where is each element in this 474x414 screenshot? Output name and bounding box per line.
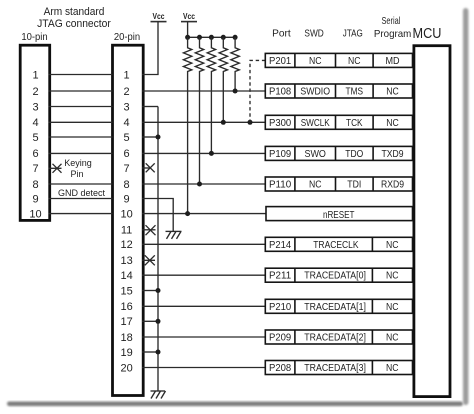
node: bus junction dots xyxy=(185,35,238,40)
svg-text:20: 20 xyxy=(120,362,132,374)
svg-text:3: 3 xyxy=(32,101,38,113)
svg-text:Program: Program xyxy=(374,28,412,40)
svg-text:NC: NC xyxy=(386,118,399,129)
svg-text:Port: Port xyxy=(272,28,291,40)
svg-text:NC: NC xyxy=(309,56,322,67)
svg-text:Arm standard: Arm standard xyxy=(44,6,105,18)
row P208 / TRACEDATA[3] / NC xyxy=(265,361,412,375)
node: pin 19 junction xyxy=(156,350,161,355)
svg-text:P300: P300 xyxy=(269,118,291,129)
svg-text:13: 13 xyxy=(120,255,132,267)
wire: pin 20 to P208 row xyxy=(142,367,265,369)
wire: pin 16 to P210 row xyxy=(142,305,265,307)
svg-text:10: 10 xyxy=(120,208,132,220)
svg-text:8: 8 xyxy=(32,179,38,191)
svg-text:Pin: Pin xyxy=(70,169,83,179)
svg-text:MCU: MCU xyxy=(413,25,442,42)
node: pin 5 junction xyxy=(156,135,161,140)
svg-text:SWO: SWO xyxy=(304,149,326,160)
svg-text:P201: P201 xyxy=(269,56,291,67)
resistor R2 (pull-up to pin 8 net) xyxy=(195,37,203,184)
svg-text:TRACEDATA[1]: TRACEDATA[1] xyxy=(304,302,366,313)
svg-text:7: 7 xyxy=(124,163,130,175)
svg-text:GND detect: GND detect xyxy=(58,188,106,198)
svg-text:NC: NC xyxy=(386,333,399,344)
svg-text:P209: P209 xyxy=(269,333,291,344)
svg-text:TRACEDATA[2]: TRACEDATA[2] xyxy=(304,333,366,344)
wire: pin 18 to P209 row xyxy=(142,336,265,338)
wire: pin 4 to P300 row xyxy=(142,121,265,123)
node: R4 junction xyxy=(221,120,226,125)
svg-text:TDI: TDI xyxy=(347,180,361,191)
svg-text:TXD9: TXD9 xyxy=(382,149,404,160)
row P110 / NC / TDI / RXD9 xyxy=(265,177,412,191)
svg-text:P109: P109 xyxy=(269,149,291,160)
svg-text:19: 19 xyxy=(120,347,132,359)
wire: Vcc feed to resistor bus xyxy=(187,22,189,38)
label: Keying Pin xyxy=(64,158,92,179)
svg-text:Keying: Keying xyxy=(64,158,92,168)
row P210 / TRACEDATA[1] / NC xyxy=(265,299,412,313)
svg-text:MD: MD xyxy=(385,56,399,67)
row P209 / TRACEDATA[2] / NC xyxy=(265,330,412,344)
no-connect X pin 11 xyxy=(142,225,156,235)
svg-text:TRACEDATA[3]: TRACEDATA[3] xyxy=(304,363,366,374)
wire: pin 9 to ground xyxy=(142,199,173,232)
resistor R1 (pull-up to nRESET) xyxy=(183,37,191,213)
svg-text:NC: NC xyxy=(386,271,399,282)
row P109 / SWO / TDO / TXD9 xyxy=(265,146,412,160)
svg-text:10: 10 xyxy=(29,208,41,220)
MCU box U1 xyxy=(414,46,450,397)
svg-text:NC: NC xyxy=(386,87,399,98)
svg-text:Serial: Serial xyxy=(381,15,400,27)
svg-text:NC: NC xyxy=(386,240,399,251)
ground (bottom of rail) xyxy=(151,391,166,399)
node: R5 junction xyxy=(233,89,238,94)
power Vcc (pin 1) xyxy=(151,11,167,22)
resistor R4 (pull-up to pin 4 net) xyxy=(219,37,227,122)
svg-text:NC: NC xyxy=(386,302,399,313)
node: R1 junction xyxy=(185,211,190,216)
no-connect X pin 13 xyxy=(142,255,155,265)
wire: pin 3 stub to ground rail xyxy=(142,106,158,108)
row P108 / SWDIO / TMS / NC xyxy=(265,84,412,98)
svg-text:Vcc: Vcc xyxy=(183,11,195,21)
wire: pin 10 to nRESET row xyxy=(142,213,266,215)
wire: pin 2 to P108 row xyxy=(142,90,265,92)
wire: pin 15 stub xyxy=(142,290,158,292)
wire: pin 12 to P214 row xyxy=(142,243,265,245)
svg-text:1: 1 xyxy=(32,69,38,81)
svg-text:5: 5 xyxy=(124,132,130,144)
svg-text:TMS: TMS xyxy=(346,87,364,98)
svg-text:TRACECLK: TRACECLK xyxy=(313,240,358,251)
svg-text:10-pin: 10-pin xyxy=(21,32,47,43)
wire: pin 14 to P211 row xyxy=(142,274,265,276)
label: Arm standard JTAG connector (title) xyxy=(37,6,111,30)
row P214 / TRACECLK / NC xyxy=(265,237,412,251)
svg-text:4: 4 xyxy=(124,117,130,129)
svg-text:NC: NC xyxy=(348,56,361,67)
svg-text:2: 2 xyxy=(124,86,130,98)
label: Serial Program xyxy=(374,15,412,40)
row P201 / NC / NC / MD xyxy=(265,53,412,67)
svg-text:TCK: TCK xyxy=(346,118,363,129)
svg-text:P214: P214 xyxy=(269,240,291,251)
resistor R3 (pull-up to pin 6 net) xyxy=(207,37,215,153)
svg-text:20-pin: 20-pin xyxy=(114,32,140,43)
node: dashed branch junction xyxy=(248,120,253,125)
resistor R5 (pull-up to pin 2 net) xyxy=(231,37,239,91)
svg-text:TDO: TDO xyxy=(345,149,363,160)
svg-text:P110: P110 xyxy=(269,180,291,191)
node: R2 junction xyxy=(197,182,202,187)
wire: pin 19 stub xyxy=(142,351,158,353)
ground (pin 9) xyxy=(166,231,182,239)
wire: ground rail xyxy=(157,107,159,392)
svg-text:6: 6 xyxy=(124,148,130,160)
svg-text:JTAG: JTAG xyxy=(343,28,363,40)
svg-text:P108: P108 xyxy=(269,87,291,98)
svg-text:TRACEDATA[0]: TRACEDATA[0] xyxy=(304,271,366,282)
svg-text:17: 17 xyxy=(120,316,132,328)
svg-text:NC: NC xyxy=(386,363,399,374)
wire: dashed P201 to pin 4 net xyxy=(250,60,265,122)
power Vcc (pull-up bus) xyxy=(181,11,197,22)
keying pin X on 20-pin (pin 7) xyxy=(142,163,155,172)
svg-text:P210: P210 xyxy=(269,302,291,313)
svg-text:RXD9: RXD9 xyxy=(381,180,404,191)
svg-text:15: 15 xyxy=(120,285,132,297)
svg-text:1: 1 xyxy=(124,69,130,81)
node: pin 15 junction xyxy=(156,288,161,293)
connector J2: 20-pin box xyxy=(113,45,144,395)
svg-text:SWDIO: SWDIO xyxy=(300,87,330,98)
svg-text:2: 2 xyxy=(32,86,38,98)
wire: pin 5 stub xyxy=(142,136,158,138)
keying pin X on 10-pin xyxy=(49,164,62,173)
node: R3 junction xyxy=(209,151,214,156)
svg-text:16: 16 xyxy=(120,301,132,313)
wire: Vcc to pin 1 of 20-pin xyxy=(142,22,158,75)
svg-text:6: 6 xyxy=(32,148,38,160)
svg-text:SWCLK: SWCLK xyxy=(301,118,330,129)
node: pin 17 junction xyxy=(156,319,161,324)
svg-text:7: 7 xyxy=(32,163,38,175)
svg-text:JTAG connector: JTAG connector xyxy=(37,18,111,30)
wire: pin 8 to P110 row xyxy=(142,183,265,185)
wires: 10-pin to 20-pin pins 1-6,8,9,10 xyxy=(49,75,113,214)
wire: resistor top bus xyxy=(188,36,236,38)
svg-text:9: 9 xyxy=(124,193,130,205)
svg-text:P211: P211 xyxy=(269,271,291,282)
svg-text:P208: P208 xyxy=(269,363,291,374)
row P211 / TRACEDATA[0] / NC xyxy=(265,268,412,282)
svg-text:5: 5 xyxy=(32,132,38,144)
svg-text:9: 9 xyxy=(32,193,38,205)
svg-text:3: 3 xyxy=(124,101,130,113)
wire: pin 17 stub xyxy=(142,320,158,322)
svg-text:18: 18 xyxy=(120,332,132,344)
connector J1: 10-pin box xyxy=(20,45,50,220)
svg-text:14: 14 xyxy=(120,270,132,282)
svg-text:11: 11 xyxy=(121,224,132,236)
row nRESET xyxy=(266,207,413,221)
svg-text:4: 4 xyxy=(32,117,38,129)
svg-text:Vcc: Vcc xyxy=(153,11,165,21)
svg-text:nRESET: nRESET xyxy=(323,210,355,221)
svg-text:SWD: SWD xyxy=(304,28,324,40)
wire: pin 6 to P109 row xyxy=(142,152,265,154)
row P300 / SWCLK / TCK / NC xyxy=(265,115,412,129)
svg-text:NC: NC xyxy=(309,180,322,191)
svg-text:12: 12 xyxy=(120,239,132,251)
svg-text:8: 8 xyxy=(124,179,130,191)
